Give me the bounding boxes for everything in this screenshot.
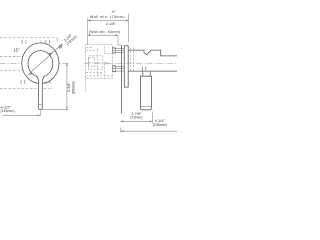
supply connectors solid <box>113 48 125 72</box>
diameter symbol <box>59 45 62 49</box>
svg-text:Wall min. (76mm): Wall min. (76mm) <box>90 15 125 19</box>
svg-text:(73mm): (73mm) <box>130 116 142 120</box>
svg-text:15°: 15° <box>13 47 20 52</box>
svg-text:2-1/8": 2-1/8" <box>106 22 117 26</box>
centerline side view <box>84 63 177 65</box>
svg-text:(86mm): (86mm) <box>72 81 76 94</box>
wire: dashed lever hidden lines left <box>0 57 53 89</box>
extension lines top <box>88 14 129 44</box>
handle lever stem front <box>36 76 44 110</box>
valve body hidden dashed <box>86 45 113 93</box>
escutcheon outer circle <box>22 43 59 84</box>
collar joint lines <box>142 67 145 71</box>
cartridge stem hidden dashed verticals <box>130 48 133 72</box>
node: vertical centerline <box>39 41 41 91</box>
valve cartridge centerline cross <box>87 48 110 75</box>
dim 3-3/8 vertical line <box>43 63 69 109</box>
lever handle side <box>140 71 151 110</box>
escutcheon plate side <box>124 46 128 87</box>
svg-text:(115mm): (115mm) <box>1 109 15 113</box>
label 3-3/8 86mm rotated <box>67 81 75 94</box>
spout bottom line <box>128 70 177 72</box>
node: horizontal centerline <box>0 62 68 64</box>
svg-text:(235mm): (235mm) <box>153 123 167 127</box>
label 2-3/4in 70mm rotated <box>63 32 78 47</box>
handle hub inner circle <box>28 51 53 77</box>
svg-text:3-3/8": 3-3/8" <box>67 82 71 92</box>
position arcs bottom <box>21 80 50 84</box>
svg-text:(Wall min. 54mm): (Wall min. 54mm) <box>89 30 120 34</box>
diameter dimension diagonal <box>28 44 63 76</box>
wire: dashed handle-position line top <box>0 38 57 42</box>
lever seam <box>38 104 42 106</box>
wall line <box>121 45 123 113</box>
svg-text:3": 3" <box>112 9 116 14</box>
position arcs top-left <box>22 40 50 44</box>
body and spout top profile <box>128 50 177 56</box>
lever seam side <box>140 106 151 108</box>
